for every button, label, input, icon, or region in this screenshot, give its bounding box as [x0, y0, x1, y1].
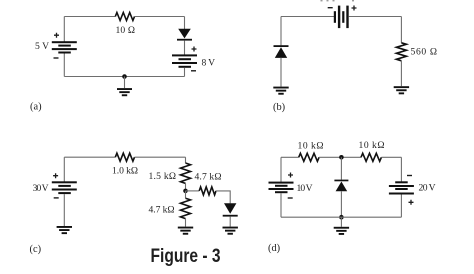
label + (d battery 20V): [409, 200, 414, 205]
wire: (a) top wire right segment: [135, 16, 185, 18]
diode (a): [177, 29, 192, 41]
label minus (d battery 20V): [407, 175, 412, 176]
wire: (c) below lower resistor: [185, 219, 187, 227]
label + (c battery): [53, 173, 58, 178]
svg-text:4.7 kΩ: 4.7 kΩ: [195, 171, 222, 182]
label minus (b battery): [328, 7, 333, 8]
wire: (d) left rail bottom: [280, 193, 282, 217]
diode (c): [223, 203, 238, 216]
svg-text:(d): (d): [268, 243, 280, 254]
wire: (c) below diode: [229, 217, 231, 227]
ground (d): [334, 217, 349, 235]
resistor 4.7 kOhm horizontal (c): [199, 187, 216, 195]
wire: (d) middle branch bottom: [340, 191, 342, 217]
resistor 1.5 kOhm (c): [181, 163, 191, 183]
svg-text:30 V: 30 V: [33, 183, 49, 194]
label + (a battery 5V): [54, 33, 59, 38]
label + (b battery): [352, 6, 357, 11]
ground (c left): [57, 226, 72, 234]
resistor 1.0 kOhm (c): [115, 153, 134, 161]
diode (b): [274, 45, 289, 58]
svg-text:10 Ω: 10 Ω: [116, 25, 136, 36]
svg-text:Figure - 3: Figure - 3: [151, 245, 221, 267]
wire: (d) bottom wire: [281, 216, 401, 218]
wire: (c) top wire left segment: [64, 156, 115, 158]
battery 8 V (a): [172, 54, 197, 67]
svg-text:560 Ω: 560 Ω: [411, 46, 438, 57]
wire: (b) right rail bottom: [400, 61, 402, 86]
wire: (a) right rail mid: [184, 41, 186, 55]
wire: (a) left rail top: [63, 17, 65, 43]
label minus (c battery): [54, 197, 59, 198]
wire: (d) middle branch top: [340, 157, 342, 179]
resistor 4.7 kOhm vertical (c): [181, 198, 191, 218]
node: (a) ground junction: [122, 74, 127, 79]
label minus (a battery 8V): [191, 70, 196, 71]
wire: (c) node to lower resistor: [185, 191, 187, 198]
svg-text:8 V: 8 V: [202, 57, 216, 68]
label minus (a battery 5V): [54, 57, 59, 58]
node: (d) top junction: [339, 155, 344, 160]
wire: (c) top wire right segment: [135, 156, 186, 158]
svg-text:(c): (c): [30, 244, 42, 255]
resistor 10 kOhm (d left): [299, 153, 319, 161]
battery 5 V (a): [52, 41, 77, 53]
wire: (d) top wire segment 2: [319, 156, 361, 158]
ground (a): [117, 77, 132, 97]
wire: (a) right rail top: [184, 17, 186, 30]
wire: (b) left rail bottom: [280, 58, 282, 87]
diode (d): [334, 180, 348, 192]
wire: (d) left rail top: [280, 157, 282, 182]
label + (a battery 8V): [192, 47, 197, 52]
node: (c) junction: [183, 189, 188, 194]
svg-text:10 V: 10 V: [297, 183, 313, 194]
svg-text:20 V: 20 V: [419, 183, 436, 194]
wire: (c) middle branch top: [185, 157, 187, 163]
battery (b) horizontal: [334, 6, 349, 29]
artifact: cut-off label dots above battery (b): [321, 0, 355, 1]
wire: (c) node to horizontal resistor: [186, 190, 200, 192]
wire: (b) right rail top: [400, 17, 402, 43]
wire: (b) left rail top: [280, 17, 282, 46]
wire: (d) right rail top: [400, 157, 402, 182]
svg-text:4.7 kΩ: 4.7 kΩ: [149, 204, 175, 215]
wire: (c) horizontal resistor to corner: [216, 191, 230, 204]
wire: (a) left rail bottom: [63, 54, 65, 77]
battery 10 V (d): [269, 182, 294, 194]
battery 20 V (d): [389, 181, 414, 194]
ground (c middle): [178, 227, 193, 235]
svg-text:(b): (b): [273, 102, 285, 113]
wire: (c) middle branch above node: [185, 183, 187, 191]
svg-text:(a): (a): [30, 102, 42, 113]
resistor 560 Ohm (b): [396, 43, 406, 61]
svg-text:10 kΩ: 10 kΩ: [298, 140, 324, 151]
svg-text:5 V: 5 V: [35, 41, 49, 52]
ground (b right): [394, 86, 409, 94]
wire: (a) right rail bottom: [184, 68, 186, 77]
svg-text:1.0 kΩ: 1.0 kΩ: [112, 166, 138, 177]
wire: (b) top wire right segment: [349, 16, 402, 18]
label minus (d battery 10V): [288, 197, 293, 198]
svg-text:1.5 kΩ: 1.5 kΩ: [149, 171, 177, 182]
wire: (d) top wire segment 3: [381, 156, 401, 158]
wire: (a) bottom wire: [64, 76, 184, 78]
ground (c right): [223, 227, 238, 235]
wire: (c) left rail top: [63, 157, 65, 182]
wire: (d) top wire segment 1: [281, 156, 299, 158]
battery 30 V (c): [52, 181, 77, 194]
wire: (c) left rail bottom: [63, 194, 65, 226]
label + (d battery 10V): [288, 173, 293, 178]
node: (d) bottom junction: [339, 215, 344, 220]
resistor 10 Ohm (a): [115, 13, 134, 21]
wire: (b) top wire left segment: [281, 16, 335, 18]
resistor 10 kOhm (d right): [361, 153, 381, 161]
wire: (d) right rail bottom: [400, 195, 402, 218]
ground (b left): [273, 87, 288, 95]
svg-text:10 kΩ: 10 kΩ: [359, 140, 385, 151]
wire: (a) top wire left segment: [64, 16, 115, 18]
